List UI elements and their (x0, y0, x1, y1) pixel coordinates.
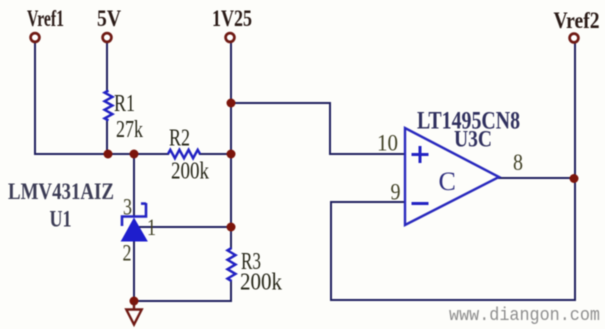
svg-text:U1: U1 (50, 207, 72, 232)
svg-text:5V: 5V (97, 6, 121, 31)
svg-text:200k: 200k (171, 159, 209, 185)
svg-text:9: 9 (391, 180, 401, 205)
svg-text:R2: R2 (169, 126, 190, 152)
svg-text:C: C (439, 167, 456, 196)
svg-text:Vref1: Vref1 (27, 6, 64, 31)
svg-text:www.diangon.com: www.diangon.com (449, 306, 600, 326)
svg-text:LMV431AIZ: LMV431AIZ (8, 179, 114, 204)
svg-text:Vref2: Vref2 (554, 8, 600, 33)
svg-text:U3C: U3C (454, 126, 492, 151)
svg-text:1: 1 (147, 215, 156, 240)
svg-text:1V25: 1V25 (212, 6, 252, 31)
svg-text:27k: 27k (116, 117, 143, 143)
svg-text:R1: R1 (114, 91, 135, 117)
svg-text:8: 8 (513, 150, 523, 175)
svg-text:2: 2 (123, 241, 132, 266)
svg-text:200k: 200k (240, 270, 282, 296)
svg-text:10: 10 (377, 131, 398, 156)
svg-text:3: 3 (123, 195, 132, 220)
